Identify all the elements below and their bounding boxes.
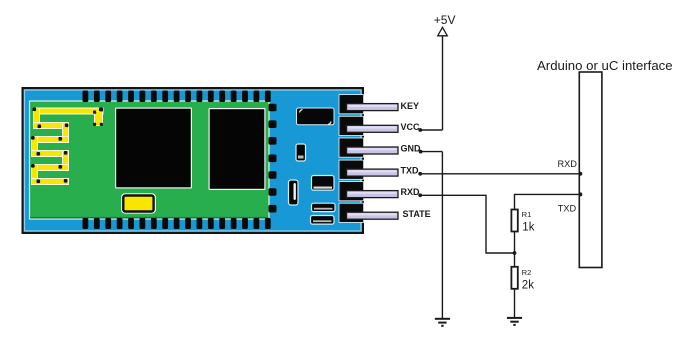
+5V arrow (438, 27, 448, 36)
wire R1 bottom (514, 232, 516, 254)
antenna trace (PCB meander) (31, 108, 103, 185)
svg-text:TXD: TXD (558, 204, 577, 214)
wire GND vertical (441, 152, 443, 319)
component D (SMD mid) (312, 176, 335, 191)
resistor R1 (511, 210, 517, 232)
svg-text:2k: 2k (522, 280, 534, 292)
wire R1 top to interface TXD (515, 194, 581, 209)
module board outline (23, 88, 364, 233)
node RXD pin (418, 193, 422, 197)
svg-text:1k: 1k (522, 221, 534, 233)
node divider junction (513, 251, 517, 255)
svg-text:+5V: +5V (434, 13, 456, 27)
node TXD pin (418, 172, 422, 176)
right pad column (269, 104, 277, 213)
bluetooth module U1 (HC-05 carrier board) (23, 88, 364, 233)
bottom pad row (83, 218, 271, 229)
component C (tall cap) (289, 180, 299, 205)
yellow component (crystal) (122, 194, 155, 212)
svg-text:STATE: STATE (403, 209, 431, 219)
component A (SMD top right) (297, 108, 335, 125)
component F (SMD bar) (311, 216, 335, 225)
component B (small cap) (296, 144, 306, 161)
wire RXD to divider junction (420, 195, 514, 253)
wire GND horizontal (421, 151, 443, 153)
pin RXD (347, 191, 399, 198)
component E (SMD bar) (312, 203, 336, 211)
wire TXD to interface RXD (420, 173, 580, 175)
green daughterboard (30, 101, 270, 219)
pin KEY (347, 104, 399, 111)
svg-text:TXD: TXD (401, 166, 420, 176)
pin TXD (347, 169, 399, 176)
resistor R2 (511, 267, 517, 289)
wire R2 bottom (514, 289, 516, 318)
interface box U2 (579, 72, 602, 268)
IC chip 2 (209, 108, 266, 190)
wire +5V vertical (442, 36, 444, 130)
node VCC (418, 128, 422, 132)
wire VCC to +5V (420, 129, 442, 131)
svg-text:RXD: RXD (558, 159, 578, 169)
pin header block (339, 95, 364, 223)
svg-text:GND: GND (401, 143, 422, 153)
pin STATE (347, 212, 399, 219)
svg-text:R1: R1 (522, 210, 532, 219)
ground symbol right (507, 318, 522, 325)
svg-text:RXD: RXD (401, 187, 421, 197)
svg-text:R2: R2 (522, 268, 532, 277)
node interface RXD (578, 172, 582, 176)
node interface TXD (578, 192, 582, 196)
ground symbol left (435, 319, 450, 326)
svg-text:VCC: VCC (401, 122, 421, 132)
wire R2 top (514, 253, 516, 267)
svg-text:Arduino or uC interface: Arduino or uC interface (537, 58, 673, 73)
svg-text:KEY: KEY (401, 101, 420, 111)
IC chip 1 (115, 108, 192, 189)
top pad row (83, 91, 271, 103)
node GND (419, 150, 423, 154)
pin GND (347, 147, 399, 154)
pin VCC (347, 125, 399, 132)
